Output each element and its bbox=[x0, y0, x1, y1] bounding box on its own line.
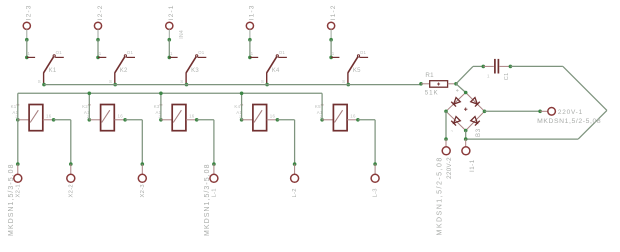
connector pad I2-1 bbox=[166, 4, 185, 41]
svg-text:K5: K5 bbox=[315, 104, 321, 109]
svg-text:X2-1: X2-1 bbox=[15, 184, 21, 197]
connector pad X2-2 bbox=[67, 162, 75, 197]
svg-text:S: S bbox=[180, 79, 183, 84]
connector pad I1-3 bbox=[246, 4, 255, 41]
svg-text:16: 16 bbox=[350, 113, 356, 118]
wire bbox=[125, 120, 142, 164]
wire bbox=[358, 120, 375, 164]
relay coil K4 bbox=[234, 104, 279, 131]
svg-text:C1: C1 bbox=[504, 73, 510, 81]
svg-text:I1-3: I1-3 bbox=[249, 4, 256, 20]
wire bbox=[464, 131, 468, 141]
svg-text:MKDSN1,5/3-5,08: MKDSN1,5/3-5,08 bbox=[8, 163, 15, 236]
relay contact K3 bbox=[168, 50, 207, 87]
svg-text:16: 16 bbox=[118, 113, 124, 118]
svg-text:K3: K3 bbox=[154, 104, 160, 109]
relay contact K5 bbox=[329, 50, 368, 87]
svg-text:S: S bbox=[109, 79, 112, 84]
svg-text:K1: K1 bbox=[49, 68, 57, 74]
svg-text:L-2: L-2 bbox=[292, 188, 298, 197]
svg-text:16: 16 bbox=[189, 113, 195, 118]
svg-text:S: S bbox=[38, 79, 41, 84]
relay coil K3 bbox=[154, 104, 199, 131]
connector pad 220V-1 bbox=[537, 108, 601, 125]
wire bbox=[54, 120, 71, 164]
svg-text:IN4: IN4 bbox=[179, 30, 185, 39]
svg-text:I1-1: I1-1 bbox=[469, 159, 476, 172]
svg-text:51K: 51K bbox=[425, 89, 439, 96]
wire bbox=[330, 40, 332, 58]
wire bbox=[26, 40, 28, 58]
connector pad I2-3 bbox=[23, 4, 32, 41]
wire pivot bus bbox=[44, 84, 421, 86]
resistor R1 bbox=[419, 72, 458, 96]
svg-text:1: 1 bbox=[99, 51, 102, 56]
wire bbox=[249, 40, 251, 58]
svg-text:16: 16 bbox=[270, 113, 276, 118]
svg-text:X2-3: X2-3 bbox=[140, 184, 146, 198]
svg-text:MKDSN1,5/3-5,08: MKDSN1,5/3-5,08 bbox=[204, 163, 211, 236]
svg-text:1: 1 bbox=[487, 74, 490, 79]
connector pad I1-2 bbox=[328, 4, 337, 41]
wire bbox=[277, 120, 294, 164]
svg-text:K2: K2 bbox=[120, 68, 128, 74]
svg-text:220V-1: 220V-1 bbox=[558, 109, 583, 116]
wire loop bbox=[466, 66, 607, 139]
svg-text:K2: K2 bbox=[82, 104, 88, 109]
connector pad 220V-2 bbox=[437, 137, 454, 235]
wire bbox=[485, 110, 541, 112]
relay coil K5 bbox=[315, 104, 360, 131]
connector pad I2-2 bbox=[94, 4, 103, 41]
svg-text:L-3: L-3 bbox=[373, 188, 379, 198]
svg-text:L-1: L-1 bbox=[212, 188, 218, 197]
svg-text:1: 1 bbox=[251, 51, 254, 56]
svg-text:K4: K4 bbox=[234, 104, 240, 109]
connector pad X2-1 bbox=[8, 162, 22, 236]
svg-text:1: 1 bbox=[170, 51, 173, 56]
svg-text:~: ~ bbox=[451, 129, 454, 134]
wire bbox=[456, 66, 473, 92]
svg-text:O1: O1 bbox=[127, 50, 134, 55]
svg-text:K1: K1 bbox=[11, 104, 17, 109]
connector pad L-2 bbox=[291, 162, 299, 197]
bridge rectifier B3 bbox=[444, 89, 486, 137]
svg-text:S: S bbox=[261, 79, 264, 84]
relay coil K2 bbox=[82, 104, 127, 131]
svg-text:X2-2: X2-2 bbox=[68, 184, 74, 197]
wire bbox=[168, 40, 170, 58]
svg-text:O1: O1 bbox=[360, 50, 367, 55]
svg-text:I2-1: I2-1 bbox=[168, 4, 175, 20]
relay contact K2 bbox=[96, 50, 135, 87]
wire bbox=[97, 40, 99, 58]
svg-text:MKDSN1,5/2-5,08: MKDSN1,5/2-5,08 bbox=[537, 118, 601, 125]
connector pad X2-3 bbox=[138, 162, 146, 197]
relay coil K1 bbox=[11, 104, 56, 131]
svg-text:1: 1 bbox=[332, 51, 335, 56]
svg-text:O1: O1 bbox=[279, 50, 286, 55]
connector pad L-3 bbox=[371, 162, 379, 197]
wire bbox=[473, 65, 483, 67]
svg-text:O1: O1 bbox=[56, 50, 63, 55]
svg-text:I2-2: I2-2 bbox=[97, 4, 104, 20]
svg-text:I2-3: I2-3 bbox=[26, 4, 33, 20]
svg-text:220V-2: 220V-2 bbox=[446, 157, 453, 179]
relay contact K4 bbox=[248, 50, 287, 87]
wire coil supply bus bbox=[18, 92, 322, 165]
svg-text:1: 1 bbox=[28, 51, 31, 56]
connector pad L-1 bbox=[204, 162, 218, 236]
wire bbox=[445, 111, 447, 139]
svg-text:MKDSN1,5/2-5,08: MKDSN1,5/2-5,08 bbox=[437, 156, 444, 235]
capacitor C1 bbox=[482, 59, 513, 80]
svg-text:K3: K3 bbox=[191, 68, 199, 74]
wire bbox=[197, 120, 214, 164]
svg-text:B3: B3 bbox=[476, 128, 482, 137]
svg-text:O1: O1 bbox=[198, 50, 205, 55]
connector pad I1-1 bbox=[462, 139, 476, 172]
relay contact K1 bbox=[25, 50, 64, 87]
svg-text:K4: K4 bbox=[272, 68, 280, 74]
svg-text:I1-2: I1-2 bbox=[330, 4, 337, 20]
svg-text:R1: R1 bbox=[425, 72, 434, 79]
svg-text:16: 16 bbox=[46, 113, 52, 118]
svg-text:K5: K5 bbox=[353, 68, 361, 74]
svg-text:S: S bbox=[342, 79, 345, 84]
